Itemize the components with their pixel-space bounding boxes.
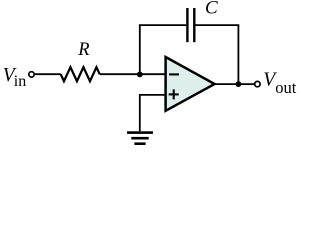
- junction node A: [137, 72, 143, 78]
- svg-text:C: C: [205, 0, 218, 19]
- junction output node: [236, 81, 242, 87]
- wire node: [100, 73, 165, 75]
- resistor R: [61, 67, 100, 81]
- label Vin: [3, 65, 26, 90]
- capacitor C: [187, 8, 194, 42]
- wire feedback right: [196, 25, 239, 84]
- minus symbol: [169, 73, 179, 75]
- wire noninverting input: [140, 95, 165, 131]
- wire output: [214, 83, 255, 85]
- label Vout: [263, 70, 297, 97]
- svg-text:in: in: [14, 73, 26, 90]
- terminal Vin: [29, 72, 34, 77]
- svg-text:out: out: [275, 78, 297, 97]
- ground: [127, 131, 153, 145]
- op-amp U1: [166, 57, 215, 111]
- wire input: [35, 73, 61, 75]
- plus symbol: [169, 89, 179, 99]
- terminal Vout: [255, 81, 260, 86]
- svg-text:R: R: [77, 40, 89, 60]
- wire feedback left: [140, 25, 186, 74]
